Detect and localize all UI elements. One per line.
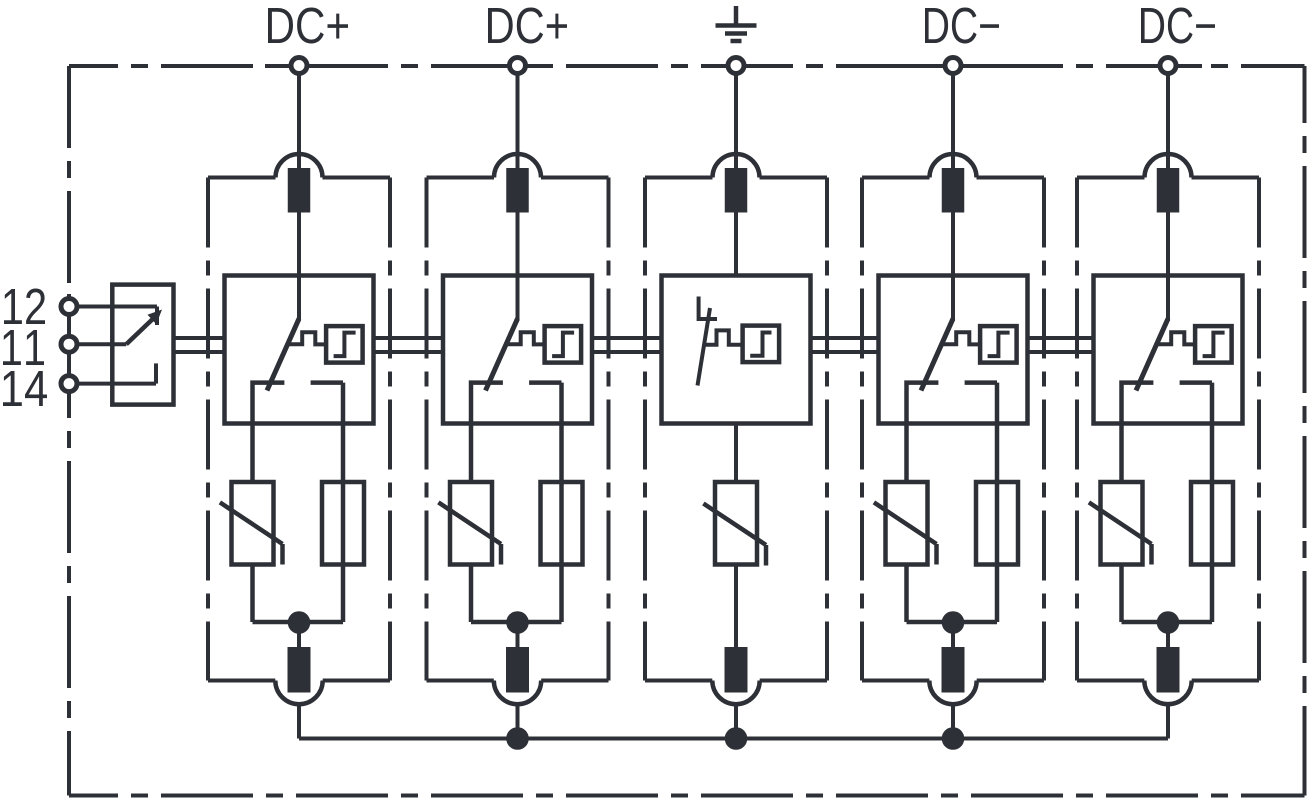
module 5 thermal disconnect switch arm xyxy=(1136,319,1168,391)
module 1 switch lower contact bracket xyxy=(253,383,344,482)
module 2 monitoring box (step symbol) xyxy=(545,326,582,363)
module 1 junction node xyxy=(288,611,311,634)
module 4 varistor branch wire (left leg) xyxy=(904,565,909,623)
wire terminal 12 to contact xyxy=(78,307,157,326)
module 3 gap electrode (L shape) xyxy=(699,297,717,320)
outer enclosure border (right, dash-dot) xyxy=(1303,66,1307,796)
module 1 top plug pin (thermal disconnect contact) xyxy=(288,168,311,213)
module 1 bottom plug pin xyxy=(288,647,311,693)
changeover switch arm (11-12) xyxy=(126,310,162,345)
module 4 top plug contact socket (dome) xyxy=(930,154,977,177)
wire terminal 11 to contact common xyxy=(78,342,126,346)
module 5 monitoring box (step symbol) xyxy=(1195,326,1232,363)
wire terminal to module 3 xyxy=(734,74,738,276)
terminal circle module 5 xyxy=(1160,58,1176,74)
module 3 varistor MOV xyxy=(703,482,766,566)
bottom bus junction node (module 2) xyxy=(506,727,529,750)
module 4 bottom plug pin xyxy=(942,647,965,693)
module 3 disconnector/monitoring box xyxy=(662,276,811,424)
module 5 varistor MOV xyxy=(1089,482,1152,565)
module 5 bottom plug pin xyxy=(1157,647,1180,693)
module 5 trip linkage (stepped line) xyxy=(1156,332,1196,344)
module 4 trip linkage (stepped line) xyxy=(941,332,981,344)
module 1 monitoring box (step symbol) xyxy=(326,326,363,363)
module 1 trip linkage (stepped line) xyxy=(287,332,327,344)
wire terminal 14 to contact xyxy=(78,363,156,383)
module 1 varistor MOV xyxy=(220,482,283,565)
module 2 branch junction wire xyxy=(471,622,562,647)
module 4 right branch wire (through element) xyxy=(995,383,1000,622)
terminal circle 11 xyxy=(61,336,77,352)
module 3 monitoring box (step symbol) xyxy=(743,326,780,363)
module 4 bottom plug contact socket (dome) xyxy=(929,681,976,705)
module 1 series element (rect) xyxy=(322,482,364,565)
module 5 plug-in unit outline (dash-dot box) xyxy=(1077,178,1259,681)
terminal label 11 xyxy=(3,330,44,365)
module 5 top plug contact socket (dome) xyxy=(1145,154,1192,178)
terminal circle module 4 xyxy=(945,58,961,74)
module 3 plug-in unit outline (dash-dot box) xyxy=(645,178,827,681)
module 3 wire to bottom bus xyxy=(734,704,738,739)
terminal label 12 xyxy=(4,289,45,325)
module 5 right branch wire (through element) xyxy=(1210,383,1215,622)
bottom protective bus wire xyxy=(299,737,1168,741)
module 5 switch lower contact bracket xyxy=(1122,383,1213,482)
module 2 thermal disconnect switch arm xyxy=(486,319,518,391)
module 5 series element (rect) xyxy=(1191,482,1233,565)
terminal label DC+ (terminal 2) xyxy=(488,8,567,44)
wire terminal to module 5 xyxy=(1166,74,1170,321)
module 2 plug-in unit outline (dash-dot box) xyxy=(427,178,609,681)
module 1 bottom plug contact socket (dome) xyxy=(275,681,322,705)
module 1 right branch wire (through element) xyxy=(341,383,346,622)
terminal circle module 2 xyxy=(510,58,526,74)
bottom bus junction node (module 4) xyxy=(942,727,965,750)
module 4 thermal disconnect switch arm xyxy=(921,319,953,391)
module 5 top plug pin (thermal disconnect contact) xyxy=(1157,168,1180,213)
module 4 switch lower contact bracket xyxy=(907,383,998,482)
module 2 bottom plug pin xyxy=(506,647,529,693)
module 4 top plug pin (thermal disconnect contact) xyxy=(942,168,965,213)
terminal label DC+ (terminal 1) xyxy=(268,8,348,44)
module 5 bottom plug contact socket (dome) xyxy=(1144,681,1191,705)
module 2 trip linkage (stepped line) xyxy=(505,332,545,344)
module 3 trip linkage (stepped line) xyxy=(705,330,743,344)
module 1 varistor branch wire (left leg) xyxy=(250,565,255,623)
terminal label DC− (terminal 5) xyxy=(1141,8,1215,44)
signal bus (double line) xyxy=(174,338,1094,352)
module 4 branch junction wire xyxy=(907,622,998,647)
module 2 bottom plug contact socket (dome) xyxy=(494,681,541,705)
terminal circle 14 xyxy=(61,376,77,392)
module 4 wire to bottom bus xyxy=(951,704,955,739)
module 1 plug-in unit outline (dash-dot box) xyxy=(208,178,390,681)
module 1 wire to bottom bus xyxy=(297,704,301,739)
module 2 right branch wire (through element) xyxy=(559,383,564,622)
module 1 top plug contact socket (dome) xyxy=(276,154,323,178)
module 3 top plug pin (thermal disconnect contact) xyxy=(725,168,748,213)
module 4 plug-in unit outline (dash-dot box) xyxy=(862,178,1044,681)
module 4 varistor MOV xyxy=(874,482,937,565)
module 4 junction node xyxy=(942,611,965,634)
earth ground symbol xyxy=(716,6,757,41)
bottom bus junction node (module 3) xyxy=(725,727,748,750)
module 2 top plug contact socket (dome) xyxy=(494,154,541,178)
outer enclosure border (top, dash-dot) xyxy=(69,64,1305,68)
module 2 junction node xyxy=(506,611,529,634)
module 3 gap slanted electrode xyxy=(698,308,711,386)
module 3 top plug contact socket (dome) xyxy=(713,154,760,178)
module 4 monitoring box (step symbol) xyxy=(980,326,1017,363)
terminal circle module 1 xyxy=(291,58,307,74)
module 1 branch junction wire xyxy=(253,622,344,647)
module 3 bottom plug pin xyxy=(725,647,748,693)
module 4 disconnector/monitoring box xyxy=(879,276,1028,424)
module 2 series element (rect) xyxy=(541,482,583,565)
module 5 junction node xyxy=(1157,611,1180,634)
module 3 bottom plug contact socket (dome) xyxy=(712,681,759,705)
module 2 disconnector/monitoring box xyxy=(443,276,592,424)
module 2 varistor MOV xyxy=(438,482,501,565)
wire terminal to module 1 xyxy=(297,74,301,321)
module 3 wire varistor to bottom pin xyxy=(734,565,738,648)
wire terminal to module 2 xyxy=(516,74,520,321)
outer enclosure border (left, dash-dot) xyxy=(67,66,71,796)
module 5 varistor branch wire (left leg) xyxy=(1119,565,1124,623)
wire terminal to module 4 xyxy=(951,74,955,321)
module 2 top plug pin (thermal disconnect contact) xyxy=(506,168,529,213)
module 2 wire to bottom bus xyxy=(516,704,520,739)
module 3 wire box to varistor xyxy=(734,424,738,483)
module 5 disconnector/monitoring box xyxy=(1094,276,1243,424)
module 2 varistor branch wire (left leg) xyxy=(469,565,474,623)
terminal circle 12 xyxy=(61,299,77,315)
terminal label 14 xyxy=(3,371,47,406)
terminal label DC− (terminal 4) xyxy=(925,8,999,44)
module 1 thermal disconnect switch arm xyxy=(267,319,299,391)
module 5 branch junction wire xyxy=(1122,622,1213,647)
module 1 disconnector/monitoring box xyxy=(225,276,374,424)
outer enclosure border (bottom, dash-dot) xyxy=(69,794,1305,798)
module 4 series element (rect) xyxy=(976,482,1018,565)
remote signalling contact box FM xyxy=(112,285,173,405)
module 2 switch lower contact bracket xyxy=(471,383,562,482)
module 5 wire to bottom bus xyxy=(1166,704,1170,739)
terminal circle module 3 xyxy=(728,58,744,74)
